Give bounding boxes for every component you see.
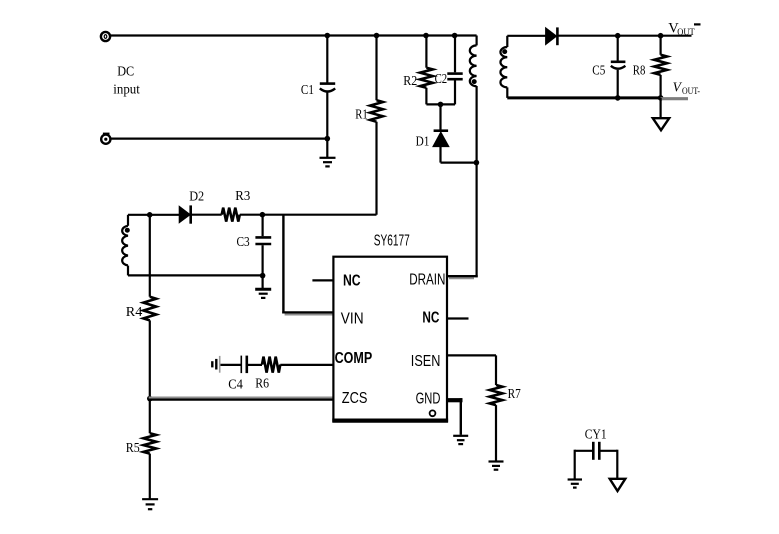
diode D1 (433, 104, 449, 162)
svg-text:R3: R3 (235, 188, 250, 203)
node VOUT+ label (668, 21, 700, 38)
svg-text:C4: C4 (228, 376, 243, 391)
svg-text:DC: DC (117, 64, 134, 79)
svg-text:D1: D1 (416, 134, 430, 149)
junction R1 top rail (374, 33, 380, 39)
wire R3 to R1 bottom node (240, 214, 377, 216)
junction R2 top rail (423, 33, 429, 39)
transformer T1 primary winding (470, 45, 477, 86)
junction C5 VOUT+ rail (615, 33, 621, 39)
svg-text:input: input (113, 82, 140, 97)
wire DC negative rail from J2 to C1 node (110, 138, 327, 140)
wire VIN drop from R3 node (282, 215, 284, 314)
ground below R5 (142, 498, 158, 500)
diode D2 (179, 205, 191, 223)
resistor R8 leads (659, 36, 661, 98)
output rectifier diode (546, 27, 558, 45)
polarity dot T1 auxiliary (125, 228, 130, 233)
junction C3-aux return node (260, 273, 266, 279)
svg-text:OUT-: OUT- (682, 86, 700, 97)
resistor R5 bottom lead (149, 454, 151, 499)
resistor R6 (262, 357, 280, 373)
junction C5 return rail (615, 95, 621, 101)
transformer T1 auxiliary winding leads (127, 215, 129, 276)
wire VIN horizontal into pin (282, 312, 333, 314)
wire aux bottom return (128, 274, 262, 276)
node VOUT- label (673, 80, 700, 97)
svg-text:ZCS: ZCS (342, 390, 368, 407)
ground below C3 (255, 288, 271, 291)
wire D2 cathode to R3 (191, 214, 222, 216)
svg-text:NC: NC (422, 309, 439, 326)
junction C1 negative rail (325, 136, 331, 142)
junction C2 top rail (452, 33, 458, 39)
wire NC right stub (447, 317, 469, 319)
svg-text:R5: R5 (126, 440, 140, 455)
polarity dot T1 primary (472, 79, 477, 84)
svg-text:OUT: OUT (677, 27, 695, 38)
wire R2-C2 bottom join (426, 103, 455, 105)
capacitor C2 (447, 36, 462, 105)
resistor R2 (420, 68, 433, 88)
transformer T1 secondary winding (500, 47, 507, 87)
wire NC left stub (312, 279, 333, 281)
COMP termination bars (212, 356, 219, 373)
wire output diode to VOUT+ (557, 35, 691, 37)
svg-text:R2: R2 (403, 73, 417, 88)
svg-text:ISEN: ISEN (411, 353, 441, 370)
svg-text:COMP: COMP (335, 350, 373, 367)
junction aux-R4 node (147, 212, 153, 218)
resistor R4 leads (149, 215, 151, 433)
transformer T1 secondary leads (506, 36, 508, 98)
polarity dot T1 secondary (502, 49, 507, 54)
junction C1 top rail (325, 33, 331, 39)
resistor R2 leads (425, 36, 427, 105)
earth ground below CY1 right (610, 479, 626, 491)
wire CY1 left lead down (574, 450, 576, 479)
wire ZCS from divider to pin (149, 398, 334, 400)
capacitor C1 (320, 36, 335, 139)
wire C3 node to ground (262, 276, 264, 289)
transformer primary vertical leads (476, 36, 478, 278)
wire aux top to D2 (128, 214, 179, 216)
DC input terminal J1 (positive) (101, 32, 110, 41)
wire CY1 right lead down (616, 450, 618, 479)
capacitor C3 (255, 215, 271, 276)
wire secondary top to output diode (507, 35, 545, 37)
resistor R1 (370, 100, 383, 122)
wire top rail from J1 to transformer primary (110, 34, 477, 36)
junction R3-C3-VIN node (260, 212, 266, 218)
svg-text:VIN: VIN (341, 310, 364, 327)
op IC U1 SY6177 body (332, 257, 448, 421)
resistor R4 (143, 297, 156, 321)
svg-text:NC: NC (343, 272, 361, 289)
resistor R7 leads (495, 355, 497, 461)
svg-text:R8: R8 (633, 62, 646, 77)
wire ISEN to R7 (447, 354, 496, 356)
DC input terminal J2 (negative) (101, 133, 110, 144)
junction R2C2-D1 node (438, 102, 444, 108)
wire VOUT- gray stub (661, 97, 688, 100)
svg-text:R1: R1 (355, 107, 368, 122)
svg-text:C3: C3 (237, 234, 250, 249)
wire GND pin to ground (447, 398, 463, 435)
wire R8 bottom to earth (659, 98, 661, 118)
ground below CY1 left (568, 478, 582, 480)
capacitor C5 (611, 36, 626, 98)
capacitor CY1 (575, 442, 618, 460)
svg-text:R4: R4 (126, 304, 143, 319)
ground below GND pin (453, 435, 468, 437)
wire C1 node to ground (326, 139, 328, 158)
wire secondary bottom return (507, 96, 660, 99)
junction primary-D1 node (474, 160, 480, 166)
junction R8 VOUT+ rail (658, 33, 664, 39)
resistor R3 (222, 208, 240, 222)
svg-text:C5: C5 (592, 62, 605, 77)
resistor R1 leads (375, 36, 377, 215)
wire R6 to COMP pin (280, 364, 333, 366)
earth ground below R8 (653, 118, 669, 130)
svg-text:C1: C1 (301, 82, 314, 97)
wire D1 anode to primary return (441, 162, 477, 164)
svg-text:D2: D2 (189, 188, 204, 203)
junction R8 return rail (658, 95, 664, 101)
transformer T1 auxiliary winding (122, 226, 128, 266)
svg-text:DRAIN: DRAIN (409, 271, 445, 288)
svg-text:CY1: CY1 (585, 427, 607, 442)
wire DRAIN to transformer (447, 276, 478, 278)
resistor R5 (143, 433, 156, 453)
svg-text:SY6177: SY6177 (374, 232, 410, 249)
ground below R7 (489, 460, 504, 462)
svg-text:R7: R7 (508, 386, 521, 401)
ground below C1 (320, 157, 336, 159)
capacitor C4 (221, 356, 263, 374)
junction ZCS-R4-R5 node (147, 396, 153, 402)
svg-text:R6: R6 (255, 376, 269, 391)
svg-text:C2: C2 (435, 71, 448, 86)
svg-text:GND: GND (416, 390, 441, 407)
resistor R7 (490, 385, 503, 405)
resistor R8 (654, 55, 667, 75)
